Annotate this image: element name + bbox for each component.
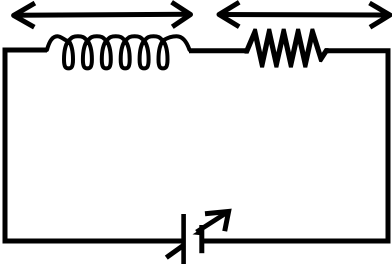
variable capacitor C: adjustment arrow shaft [197,212,229,232]
variable capacitor C: right plate [199,225,204,253]
resistor R [245,28,329,67]
wire: top-left, left side, bottom-left [5,50,184,241]
wire: between inductor and resistor [189,48,247,53]
variable capacitor C: left plate [181,214,186,264]
inductor L [47,36,190,68]
variable capacitor C: adjustment arrow head [205,212,229,232]
variable capacitor C: adjustment arrow tail segment [166,245,184,258]
double-headed arrow over resistor [219,2,390,27]
double-headed arrow over inductor [14,2,191,27]
variable capacitor C: adjustment arrow tail wedge [193,230,201,235]
wire: top-right, right side, bottom-right [202,51,388,241]
